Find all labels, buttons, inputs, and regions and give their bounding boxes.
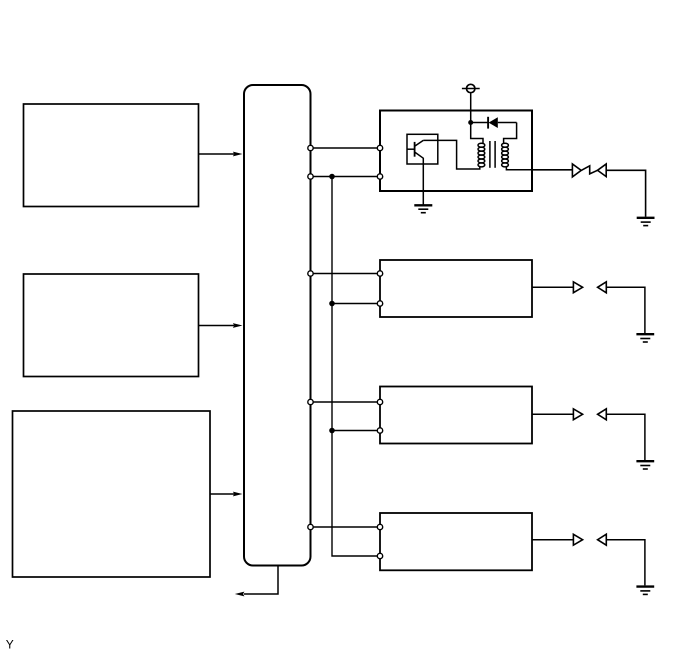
svg-text:Y: Y — [6, 638, 14, 652]
